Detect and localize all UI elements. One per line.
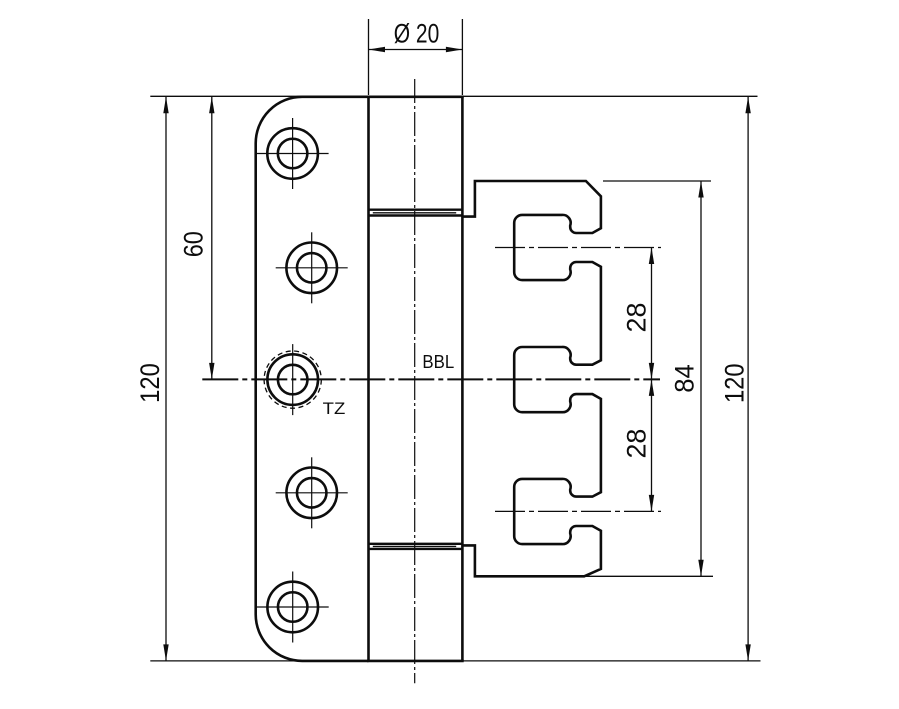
svg-text:28: 28: [622, 429, 652, 459]
screw hole H2: [276, 232, 348, 303]
28 dimension line upper: [651, 248, 653, 380]
barrel top edge: [367, 96, 464, 99]
svg-text:TZ: TZ: [323, 400, 346, 418]
svg-text:Ø 20: Ø 20: [394, 19, 440, 49]
slot 3 centerline: [495, 510, 661, 512]
arrow 60 bottom: [209, 363, 214, 380]
arrow 84 top: [698, 181, 703, 198]
slot 1 centerline: [495, 247, 661, 249]
svg-text:120: 120: [720, 363, 750, 403]
right leaf outline with three slots: [462, 181, 601, 576]
barrel bottom edge: [367, 660, 464, 663]
bottom edge extension line: [150, 660, 760, 662]
arrow right120 bottom: [745, 644, 750, 661]
60 dimension line: [211, 97, 213, 380]
28 dimension line lower: [651, 379, 653, 511]
barrel right edge: [461, 97, 464, 661]
svg-text:28: 28: [622, 303, 652, 333]
TZ dashed circle: [264, 351, 321, 408]
bottom knuckle top edge: [369, 548, 463, 550]
left 120 dimension line: [165, 97, 167, 661]
arrow 28b top: [649, 379, 654, 396]
middle knuckle bottom edge: [369, 543, 463, 545]
barrel vertical centerline: [414, 79, 416, 683]
svg-text:120: 120: [135, 363, 165, 403]
arrow dia20 right: [446, 47, 463, 52]
middle knuckle top edge: [369, 214, 463, 216]
screw hole H5: [257, 572, 329, 643]
arrow 28a top: [649, 248, 654, 265]
screw hole H3 (TZ): [267, 344, 318, 415]
screw hole H4: [276, 457, 348, 528]
dia20 left extension line: [368, 19, 370, 95]
dia20 dimension line: [369, 49, 463, 51]
84 bottom extension line: [585, 575, 714, 577]
svg-text:60: 60: [179, 231, 209, 257]
top edge extension line: [150, 95, 757, 97]
arrow 28b bottom: [649, 495, 654, 512]
arrow left120 top: [163, 97, 168, 114]
dia20 right extension line: [461, 19, 463, 95]
right 120 dimension line: [747, 97, 749, 661]
arrowheads: [163, 47, 751, 661]
screw hole H1: [257, 118, 329, 189]
top joint thin gap line: [373, 212, 456, 214]
arrow left120 bottom: [163, 644, 168, 661]
main horizontal centerline: [202, 378, 660, 380]
arrow right120 top: [745, 97, 750, 114]
84 top extension line: [603, 180, 711, 182]
left leaf outline: [256, 97, 369, 661]
top knuckle joint bottom edge: [369, 208, 463, 210]
84 dimension line: [700, 181, 702, 576]
svg-text:84: 84: [670, 364, 700, 393]
arrow 84 bottom: [698, 560, 703, 577]
svg-text:BBL: BBL: [422, 351, 454, 372]
barrel left edge: [367, 97, 370, 661]
arrow 28a bottom: [649, 363, 654, 380]
arrow 60 top: [209, 97, 214, 114]
arrow dia20 left: [369, 47, 386, 52]
bottom joint thin gap line: [373, 545, 456, 547]
